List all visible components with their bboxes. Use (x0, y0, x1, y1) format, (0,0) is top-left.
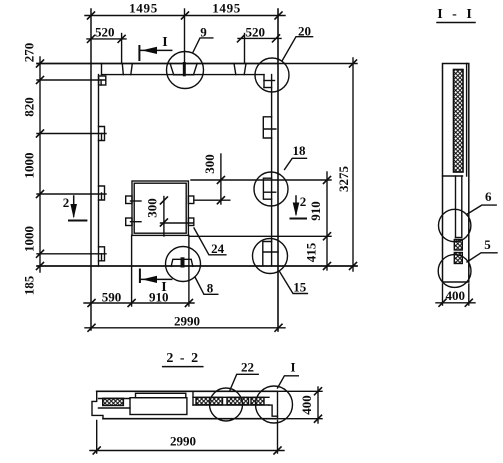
tab upper-right (188, 196, 193, 204)
svg-text:5: 5 (484, 237, 491, 252)
svg-text:22: 22 (241, 360, 254, 375)
leader 20 (282, 37, 313, 61)
2-2 bottom edge (103, 418, 278, 420)
svg-text:3275: 3275 (336, 166, 351, 193)
top 300 dim vertical x=220.9 (220, 154, 222, 204)
svg-text:400: 400 (299, 395, 314, 415)
svg-text:1495: 1495 (212, 0, 241, 15)
left notch 1 (y=133.5) (99, 127, 105, 141)
2-2 left end profile (92, 391, 103, 418)
extension square-left down x=131.6 (131, 235, 133, 306)
tick inner300 bottom (160, 219, 167, 226)
svg-text:24: 24 (211, 241, 225, 256)
circle detail 18 (254, 172, 288, 206)
svg-text:1000: 1000 (22, 226, 37, 252)
tick 2-2 2990 b (274, 447, 281, 454)
svg-text:2: 2 (300, 194, 307, 209)
svg-text:415: 415 (304, 242, 319, 262)
svg-text:520: 520 (245, 24, 265, 39)
2-2 mid block (130, 398, 187, 415)
left notch 3 (y=253.8) (99, 247, 105, 261)
tick 2990 b (275, 324, 282, 331)
corner bracket hook (100, 80, 102, 85)
tick top dim mid (182, 12, 189, 19)
left notch 2 (y=193) (99, 186, 105, 200)
corner bracket top-left box (99, 76, 106, 85)
line y=223 inner 300 lower ref (161, 222, 194, 224)
tick 2-2 400 b (315, 415, 322, 422)
tick 3275 bottom (350, 263, 357, 270)
extension 520L x=122.5 (121, 34, 123, 64)
extension y=180 (square top to right dims) (191, 179, 331, 181)
section marker I top: bar (138, 46, 140, 60)
marker 2 left: bar (69, 220, 86, 222)
tick 300top a (217, 177, 224, 184)
tick chain y=81 (37, 77, 44, 84)
svg-text:590: 590 (102, 290, 122, 305)
circle detail 20 (255, 58, 289, 92)
detail 8 center tick (181, 259, 185, 265)
left dim chain vertical x=40 (39, 57, 41, 272)
extension y=63.5 to 3275 (278, 63, 357, 65)
svg-text:185: 185 (22, 275, 37, 295)
bracket 20: mid bar (264, 80, 275, 82)
extension y=194 (37, 193, 106, 195)
tick 520L b (118, 35, 125, 42)
tab centre stub upper-left (131, 200, 142, 202)
svg-text:I: I (290, 360, 295, 375)
tick chain y=133.5 (37, 130, 44, 137)
leader 15 (280, 272, 308, 294)
extension 520R x=244 (244, 34, 246, 64)
2-2 mid top plate (136, 393, 186, 397)
right wall inner x=271.6 (271, 75, 273, 266)
dimension line top (1495+1495) (85, 15, 285, 17)
extension y=253.8 (37, 253, 106, 255)
extension/mid-bar y=80 left (37, 79, 106, 81)
section marker I bottom: arrow line (140, 278, 172, 280)
tick 400 b (465, 299, 472, 306)
leader I (278, 376, 299, 388)
section marker I top: arrow line (139, 49, 171, 51)
leader 9 (193, 38, 213, 53)
tick 520R a (238, 35, 245, 42)
marker 2 right: arrowhead (293, 203, 300, 217)
bracket 18 (263, 178, 275, 199)
svg-text:2: 2 (63, 195, 70, 210)
tick 520L a (88, 35, 95, 42)
tick top dim left (88, 12, 95, 19)
tick 2-2 400 a (315, 388, 322, 395)
svg-text:910: 910 (149, 290, 169, 305)
tick chain y=63.5 (37, 60, 44, 67)
svg-text:15: 15 (293, 279, 307, 294)
extension line mid x=184.5 (184, 9, 186, 64)
tick inner300 top (160, 197, 167, 204)
marker 2 left: arrowhead (70, 204, 77, 219)
circle detail 15 (253, 239, 288, 274)
2-2 right tray top (193, 396, 269, 398)
circle detail 6 (439, 209, 471, 241)
2-2 title underline (163, 366, 203, 368)
I-I 400 dim line (436, 302, 475, 304)
bracket 20: bottom (264, 87, 272, 89)
right dim line x=327 (910/415) (326, 172, 328, 270)
svg-text:820: 820 (22, 97, 37, 117)
tick 590 b (128, 300, 135, 307)
2-2 400 dim line x=318 (317, 387, 319, 423)
leader 18 (285, 158, 307, 169)
panel inner top line y=74.6 (102, 74, 265, 76)
svg-text:300: 300 (202, 154, 217, 174)
2-2 left tray bottom (99, 407, 131, 409)
leader 22 (230, 374, 258, 390)
2-2 hatch box b (227, 397, 249, 405)
marker 2 left: arrow line (73, 196, 75, 216)
right mid notch (263, 117, 276, 138)
circle detail 9 (167, 52, 204, 89)
corner step top-left (101, 64, 103, 75)
tick 910 b (185, 300, 192, 307)
I-I hatched square lower (454, 253, 462, 264)
tab upper-left (126, 196, 132, 204)
I-I narrow rib bottom (456, 237, 462, 239)
I-I 400 dim extensions (443, 284, 469, 305)
tick 910/415 (324, 233, 331, 240)
svg-text:1495: 1495 (129, 0, 158, 15)
I-I insulation strip border (454, 70, 464, 173)
I-I inner right line (466, 64, 468, 177)
2-2 hatch box left (103, 398, 124, 405)
2-2 2990 dim line (90, 450, 284, 452)
2-2 right tray bottom (193, 404, 269, 406)
cutout 520L left side (122, 64, 123, 75)
tick 520R b (273, 35, 280, 42)
dim line 590/910 y=303 (84, 302, 194, 304)
svg-text:270: 270 (22, 43, 37, 63)
2-2 hatch box c (251, 397, 264, 405)
I-I outer rect (443, 64, 469, 283)
tick 300top b (217, 197, 224, 204)
svg-text:I - I: I - I (437, 7, 475, 22)
I-I joint line y=176 (443, 175, 463, 177)
marker 2 right: arrow line (295, 196, 297, 214)
extension square-right down x=188.9 (188, 235, 190, 306)
2-2 right end step (269, 405, 278, 416)
cutout 520L right side (131, 64, 133, 75)
svg-text:2 - 2: 2 - 2 (166, 351, 199, 366)
svg-text:9: 9 (200, 24, 207, 39)
extension line left edge x=91 (full height to 2990 dim) (90, 9, 92, 330)
svg-text:8: 8 (207, 280, 214, 295)
circle detail 5 (438, 255, 471, 288)
svg-text:6: 6 (485, 189, 492, 204)
I-I narrow rib right (461, 176, 463, 238)
2-2 right edge (277, 391, 279, 418)
tick chain y=253.8 (37, 250, 44, 257)
cutout 520R right side (244, 64, 246, 75)
2-2 left tray top (99, 398, 131, 400)
extension y=200.2 right of square (194, 199, 230, 201)
I-I insulation strip hatch (454, 70, 464, 173)
svg-text:520: 520 (95, 25, 115, 40)
cutout 9 right side (194, 64, 198, 75)
svg-text:2990: 2990 (174, 314, 200, 329)
circle detail 22 (210, 388, 243, 421)
extension y=236.3 (square bottom to right dims) (190, 235, 331, 237)
tick 400 a (439, 299, 446, 306)
svg-text:18: 18 (293, 143, 307, 158)
tick chain y=266 (37, 263, 44, 270)
svg-text:400: 400 (446, 288, 466, 303)
tab centre stub lower-left (131, 221, 142, 223)
svg-text:20: 20 (298, 24, 311, 39)
panel bottom edge y=266 (with extensions both sides) (37, 265, 357, 267)
leader 8 (195, 277, 218, 294)
2-2 400 dim extensions (279, 391, 322, 418)
circle detail I (256, 386, 293, 423)
section marker I bottom: bar (139, 270, 141, 283)
opening square inner (134, 183, 186, 233)
dim 3275 vertical x=351 (352, 58, 354, 271)
tick 3275 top (350, 60, 357, 67)
tab lower-left (126, 218, 132, 226)
2-2 top edge (97, 390, 278, 392)
I-I title underline (437, 22, 475, 24)
tick top dim right (275, 12, 282, 19)
2-2 right tray left edge (192, 391, 194, 405)
svg-text:2990: 2990 (170, 434, 196, 449)
panel top edge y=63.5 (with extension to left chain) (37, 63, 278, 65)
tick chain y=194 (37, 191, 44, 198)
dim line 2990 y=327.8 (85, 327, 285, 329)
tab lower-right (188, 218, 193, 226)
svg-text:I: I (162, 35, 167, 50)
section marker I top: arrowhead (142, 47, 158, 54)
leader 24 (194, 228, 226, 255)
svg-text:1000: 1000 (22, 153, 37, 179)
tick 2990 a (88, 324, 95, 331)
leader 5 (467, 253, 497, 262)
cutout 9 bottom (174, 74, 194, 76)
2-2 2990 extensions (97, 421, 278, 454)
I-I hatched square upper (454, 240, 462, 251)
tick 590 a (88, 300, 95, 307)
2-2 hatch box a (196, 397, 223, 405)
marker 2 right: bar (291, 218, 307, 220)
tick 910 top (324, 177, 331, 184)
tick 415 bottom (324, 263, 331, 270)
tick 2-2 2990 a (93, 447, 100, 454)
section marker I bottom: arrowhead (142, 276, 157, 283)
svg-text:910: 910 (308, 201, 323, 221)
leader 6 (467, 205, 497, 214)
circle detail 8 (166, 247, 201, 282)
cutout 9 left side (170, 64, 174, 75)
I-I narrow rib left (455, 176, 457, 238)
svg-text:300: 300 (145, 198, 160, 218)
panel right edge outer x=278 with extensions (277, 9, 279, 331)
extension y=133.5 (37, 133, 106, 135)
cutout 520R left side (234, 64, 236, 75)
bracket 15 (263, 242, 278, 266)
left wall inner line x=98.5 (98, 75, 100, 266)
opening square outer (132, 181, 188, 235)
inner 300 dim vertical x=163.9 (163, 197, 165, 237)
dimension line 520 right (238, 37, 281, 39)
dimension line 520 left (87, 38, 126, 40)
detail 8 trapezoid bump (171, 259, 193, 266)
bracket 20: vertical (263, 75, 265, 88)
